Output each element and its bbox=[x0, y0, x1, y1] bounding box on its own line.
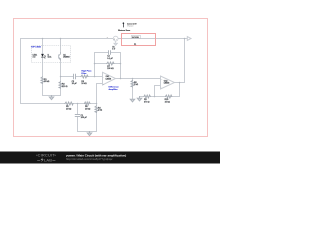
resistor R3 bbox=[81, 75, 88, 78]
svg-text:220 Ω: 220 Ω bbox=[62, 86, 68, 88]
capacitor C1 plates bbox=[75, 115, 79, 117]
wire: feedback vertical to gain rail bbox=[179, 83, 181, 97]
svg-text:2N3904: 2N3904 bbox=[63, 57, 69, 59]
svg-text:F1: F1 bbox=[134, 44, 136, 46]
svg-text:Whatever Name: Whatever Name bbox=[118, 29, 130, 32]
resistor R4 bbox=[95, 106, 98, 112]
svg-text:100 µF: 100 µF bbox=[81, 117, 88, 119]
wire: op-amp1 output to op-amp2 bbox=[116, 78, 161, 80]
op-amp OA1 bbox=[103, 72, 116, 85]
resistor R8 bbox=[131, 81, 134, 87]
wire: cap branch down bbox=[77, 104, 79, 132]
svg-text:+: + bbox=[114, 39, 115, 41]
schematic page border bbox=[14, 19, 208, 137]
svg-text:Filter: Filter bbox=[81, 72, 86, 75]
capacitor C2 plates bbox=[109, 51, 111, 55]
wire: op-amp2 output bbox=[175, 82, 185, 84]
wire: +5V top rail right segment bbox=[118, 38, 187, 40]
wire: transistor column bbox=[60, 39, 62, 96]
wire: op-amp1 + input bbox=[97, 83, 103, 85]
wire: emitter signal branch bbox=[61, 76, 103, 78]
annotation pin icon bbox=[123, 22, 125, 27]
wire: opto ground rail bbox=[43, 95, 61, 97]
svg-text:10 kΩ: 10 kΩ bbox=[81, 83, 87, 85]
node flag arrow (output terminal) bbox=[187, 37, 191, 41]
svg-text:10 kΩ: 10 kΩ bbox=[85, 108, 91, 110]
svg-text:0.1 µF: 0.1 µF bbox=[107, 58, 113, 60]
junction dots bbox=[42, 38, 186, 105]
svg-text:LAB: LAB bbox=[44, 157, 52, 162]
wire: feedback right vertical bbox=[120, 53, 122, 79]
wire: feedback left vertical bbox=[94, 53, 96, 77]
resistor R9 bbox=[144, 95, 150, 98]
footer bar bbox=[0, 152, 220, 164]
resistor R6 bbox=[85, 102, 91, 105]
wire: divider horizontal bbox=[21, 103, 97, 105]
svg-text:TOP1 4N25: TOP1 4N25 bbox=[31, 46, 41, 49]
svg-text:Amplifier: Amplifier bbox=[109, 88, 118, 91]
wire: LED column bbox=[42, 39, 44, 96]
wire: vref vertical with R4 bbox=[96, 84, 98, 132]
resistor R7 bbox=[107, 62, 114, 65]
selection highlight box bbox=[122, 34, 156, 46]
wire: +5V top rail left segment bbox=[21, 38, 114, 40]
ground GND1 bbox=[49, 96, 53, 100]
wire: R8 pulldown branch bbox=[132, 79, 134, 100]
svg-text:1 kΩ: 1 kΩ bbox=[134, 84, 139, 86]
resistor R1 bbox=[41, 77, 44, 83]
ground GND5 bbox=[114, 43, 118, 45]
svg-text:1 kΩ: 1 kΩ bbox=[98, 110, 103, 112]
wire: feedback top (C2) path bbox=[95, 52, 121, 54]
wire: gain network rail bbox=[140, 96, 180, 98]
svg-text:10 kΩ: 10 kΩ bbox=[165, 101, 171, 103]
wire: supply column right bbox=[184, 39, 186, 83]
resistor R2 bbox=[59, 82, 62, 88]
svg-text:10 kΩ: 10 kΩ bbox=[44, 81, 50, 83]
optocoupler dashed box TOP1 bbox=[32, 46, 71, 63]
phototransistor Q1 bbox=[59, 52, 61, 61]
wire: op-amp2 inverting input bbox=[155, 86, 161, 97]
CircuitLab logo bbox=[36, 153, 56, 163]
wire: left supply drop bbox=[20, 39, 22, 104]
LED D1 (opto emitter) bbox=[41, 54, 46, 59]
resistor R5 bbox=[65, 102, 73, 105]
svg-text:10 µF: 10 µF bbox=[72, 83, 78, 85]
svg-text:LM358: LM358 bbox=[164, 83, 170, 85]
svg-text:470 Ω: 470 Ω bbox=[144, 101, 150, 103]
svg-text:http://circuitlab.com/c/ma5pz7: http://circuitlab.com/c/ma5pz77ypqbqw bbox=[66, 157, 112, 161]
voltage source V1 bbox=[107, 36, 119, 45]
fuse F1 bbox=[131, 36, 140, 39]
svg-text:yuwen / Main Circuit (with ear: yuwen / Main Circuit (with ear amplifica… bbox=[66, 153, 126, 157]
ground GND2 bbox=[87, 132, 91, 136]
resistor R10 bbox=[166, 95, 172, 98]
svg-text:10 kΩ: 10 kΩ bbox=[66, 108, 72, 110]
ground GND4 bbox=[137, 97, 141, 101]
wire: feedback mid (R7) path bbox=[95, 63, 121, 65]
svg-text:LM358: LM358 bbox=[106, 78, 112, 80]
svg-text:red: red bbox=[33, 57, 36, 59]
capacitor C3 plates bbox=[74, 74, 76, 78]
svg-text:5V/USB: 5V/USB bbox=[132, 37, 139, 39]
svg-text:100 kΩ: 100 kΩ bbox=[107, 68, 114, 70]
ground GND3 bbox=[130, 99, 134, 102]
op-amp OA2 bbox=[161, 76, 175, 89]
wire: mid ground rail bbox=[78, 131, 97, 133]
